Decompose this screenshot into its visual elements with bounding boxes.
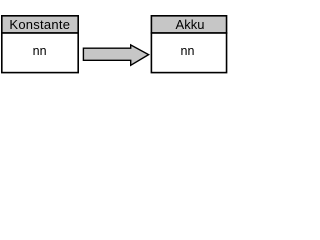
svg-text:Konstante: Konstante	[9, 17, 70, 32]
block arrow from Konstante to Akku	[83, 45, 148, 65]
register box Konstante : header cell	[2, 16, 78, 33]
svg-text:Akku: Akku	[176, 17, 205, 32]
register box Akku : header cell	[151, 16, 226, 33]
register box Konstante : body cell	[2, 33, 78, 73]
svg-text:nn: nn	[181, 44, 195, 58]
register box Akku : body cell	[151, 33, 226, 73]
svg-text:nn: nn	[33, 44, 47, 58]
